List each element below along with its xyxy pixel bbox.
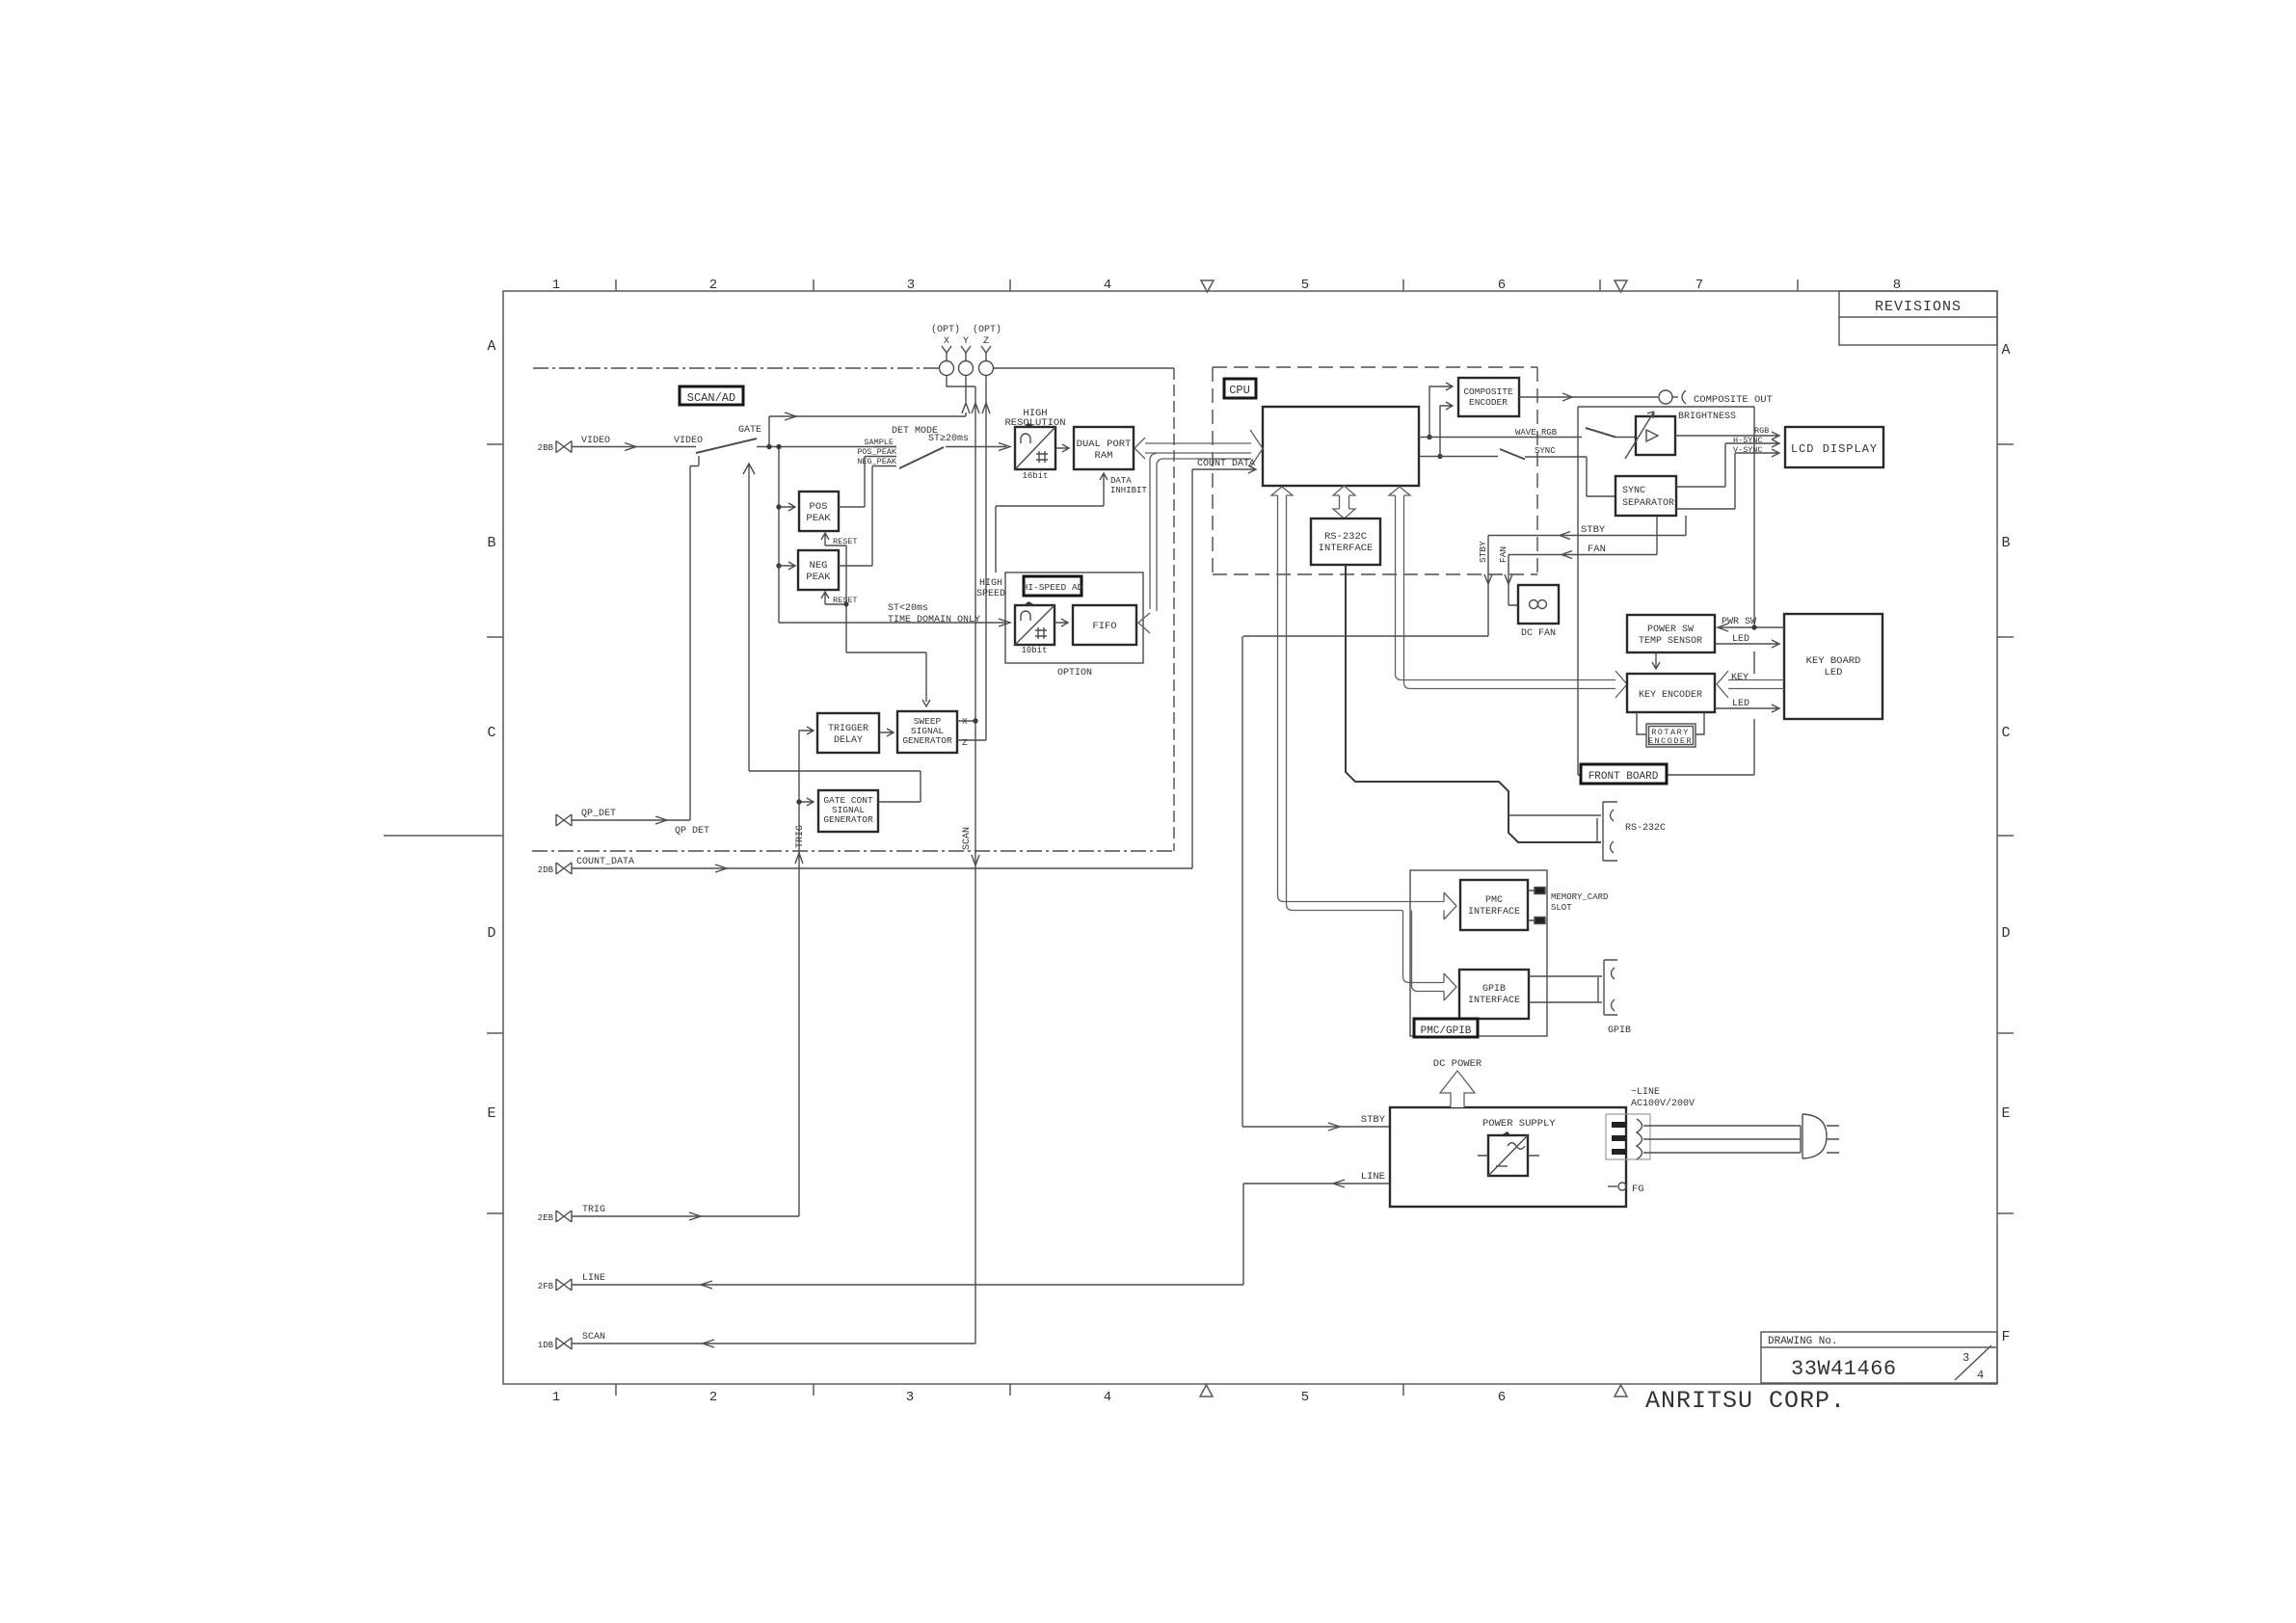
svg-text:TRIG: TRIG xyxy=(795,825,806,848)
svg-text:DRAWING No.: DRAWING No. xyxy=(1768,1336,1838,1347)
svg-text:PEAK: PEAK xyxy=(806,572,831,583)
svg-text:KEY ENCODER: KEY ENCODER xyxy=(1639,690,1702,701)
svg-text:F: F xyxy=(2001,1329,2010,1345)
svg-text:LINE: LINE xyxy=(1361,1171,1385,1183)
svg-text:OPTION: OPTION xyxy=(1057,668,1092,678)
svg-text:INTERFACE: INTERFACE xyxy=(1319,543,1374,554)
svg-text:GENERATOR: GENERATOR xyxy=(902,735,952,746)
svg-text:4: 4 xyxy=(1104,278,1111,293)
svg-text:COMPOSITE OUT: COMPOSITE OUT xyxy=(1694,394,1773,406)
svg-text:DELAY: DELAY xyxy=(834,735,863,746)
svg-text:SCAN: SCAN xyxy=(582,1332,605,1343)
svg-text:INTERFACE: INTERFACE xyxy=(1468,996,1520,1006)
svg-text:3: 3 xyxy=(1962,1351,1969,1365)
svg-text:2EB: 2EB xyxy=(538,1213,554,1223)
svg-text:STBY: STBY xyxy=(1478,541,1488,563)
svg-text:SEPARATOR: SEPARATOR xyxy=(1622,498,1674,509)
svg-text:4: 4 xyxy=(1104,1390,1111,1405)
svg-text:LED: LED xyxy=(1825,667,1843,678)
svg-text:MEMORY_CARD: MEMORY_CARD xyxy=(1551,892,1608,902)
svg-text:1: 1 xyxy=(552,1390,560,1405)
svg-text:SAMPLE: SAMPLE xyxy=(864,438,894,447)
svg-text:DC FAN: DC FAN xyxy=(1521,628,1556,639)
svg-text:STBY: STBY xyxy=(1581,524,1606,536)
svg-text:RGB: RGB xyxy=(1754,426,1769,436)
svg-text:SCAN/AD: SCAN/AD xyxy=(687,391,735,405)
svg-text:REVISIONS: REVISIONS xyxy=(1875,299,1962,315)
svg-text:(OPT): (OPT) xyxy=(973,324,1001,335)
svg-text:KEY: KEY xyxy=(1731,673,1749,683)
svg-text:4: 4 xyxy=(1977,1369,1984,1382)
svg-text:3: 3 xyxy=(906,1390,914,1405)
svg-text:LINE: LINE xyxy=(582,1273,605,1284)
svg-text:GPIB: GPIB xyxy=(1482,984,1506,995)
svg-text:FAN: FAN xyxy=(1498,546,1508,563)
svg-text:SYNC: SYNC xyxy=(1535,446,1556,456)
svg-text:ST<20ms: ST<20ms xyxy=(888,603,928,614)
svg-text:E: E xyxy=(487,1105,495,1122)
svg-text:VIDEO: VIDEO xyxy=(674,436,703,446)
svg-text:B: B xyxy=(487,535,495,551)
svg-text:SYNC: SYNC xyxy=(1622,486,1645,496)
svg-text:D: D xyxy=(2001,925,2010,942)
svg-text:RS-232C: RS-232C xyxy=(1324,531,1367,543)
svg-text:HI-SPEED AD: HI-SPEED AD xyxy=(1023,582,1083,593)
svg-text:C: C xyxy=(2001,725,2010,741)
svg-text:RESET: RESET xyxy=(833,537,858,546)
svg-text:DATA: DATA xyxy=(1110,476,1132,486)
svg-text:VIDEO: VIDEO xyxy=(581,436,610,446)
svg-text:LCD DISPLAY: LCD DISPLAY xyxy=(1791,442,1878,456)
svg-text:PMC/GPIB: PMC/GPIB xyxy=(1421,1025,1472,1037)
svg-text:2DB: 2DB xyxy=(538,865,554,875)
svg-text:GPIB: GPIB xyxy=(1608,1025,1631,1036)
svg-text:5: 5 xyxy=(1301,1390,1309,1405)
svg-text:C: C xyxy=(487,725,495,741)
svg-text:~LINE: ~LINE xyxy=(1631,1087,1660,1098)
svg-text:Z: Z xyxy=(983,336,989,347)
svg-text:6: 6 xyxy=(1498,278,1506,293)
svg-text:QP_DET: QP_DET xyxy=(581,809,616,819)
svg-text:FG: FG xyxy=(1632,1184,1644,1195)
svg-text:X: X xyxy=(962,716,968,727)
svg-text:6: 6 xyxy=(1498,1390,1506,1405)
svg-text:2BB: 2BB xyxy=(538,443,554,453)
svg-text:INTERFACE: INTERFACE xyxy=(1468,907,1520,918)
svg-text:ANRITSU CORP.: ANRITSU CORP. xyxy=(1645,1387,1846,1415)
svg-text:SPEED: SPEED xyxy=(976,589,1005,599)
svg-text:QP DET: QP DET xyxy=(675,826,709,837)
svg-text:KEY BOARD: KEY BOARD xyxy=(1806,655,1861,667)
svg-text:SLOT: SLOT xyxy=(1551,903,1572,913)
svg-text:ENCODER: ENCODER xyxy=(1648,736,1693,746)
svg-text:B: B xyxy=(2001,535,2010,551)
svg-text:NEG: NEG xyxy=(810,560,828,572)
svg-text:HIGH: HIGH xyxy=(979,578,1002,589)
svg-text:1: 1 xyxy=(552,278,560,293)
svg-text:SCAN: SCAN xyxy=(962,827,973,850)
svg-text:V-SYNC: V-SYNC xyxy=(1733,445,1763,455)
svg-text:POWER SW: POWER SW xyxy=(1647,625,1694,635)
svg-text:Y: Y xyxy=(963,336,969,347)
svg-text:TRIGGER: TRIGGER xyxy=(828,724,868,734)
svg-text:TEMP SENSOR: TEMP SENSOR xyxy=(1639,636,1702,647)
svg-text:RAM: RAM xyxy=(1095,450,1113,462)
svg-text:2: 2 xyxy=(709,1390,717,1405)
svg-text:CPU: CPU xyxy=(1229,384,1250,397)
svg-text:E: E xyxy=(2001,1105,2010,1122)
svg-text:PMC: PMC xyxy=(1485,895,1503,906)
svg-text:2FB: 2FB xyxy=(538,1282,554,1291)
svg-text:PEAK: PEAK xyxy=(806,513,831,524)
svg-text:X: X xyxy=(944,336,949,347)
svg-text:1DB: 1DB xyxy=(538,1341,554,1350)
svg-text:D: D xyxy=(487,925,495,942)
svg-text:POS: POS xyxy=(810,501,828,513)
svg-text:FRONT BOARD: FRONT BOARD xyxy=(1589,771,1659,783)
svg-text:COMPOSITE: COMPOSITE xyxy=(1463,386,1513,397)
svg-text:33W41466: 33W41466 xyxy=(1791,1357,1897,1381)
svg-text:10bit: 10bit xyxy=(1021,646,1047,655)
svg-text:ENCODER: ENCODER xyxy=(1469,397,1508,408)
svg-text:FIFO: FIFO xyxy=(1092,621,1116,632)
svg-text:INHIBIT: INHIBIT xyxy=(1110,486,1147,495)
svg-text:STBY: STBY xyxy=(1361,1114,1386,1126)
svg-text:7: 7 xyxy=(1695,278,1703,293)
svg-text:(OPT): (OPT) xyxy=(931,324,960,335)
svg-text:BRIGHTNESS: BRIGHTNESS xyxy=(1678,412,1736,422)
svg-text:COUNT DATA: COUNT DATA xyxy=(1197,459,1255,469)
svg-text:TIME DOMAIN ONLY: TIME DOMAIN ONLY xyxy=(888,615,980,625)
svg-text:GATE: GATE xyxy=(738,425,761,436)
svg-text:DUAL PORT: DUAL PORT xyxy=(1077,439,1132,450)
svg-text:PWR SW: PWR SW xyxy=(1722,617,1756,627)
svg-text:RS-232C: RS-232C xyxy=(1625,823,1666,834)
svg-text:Z: Z xyxy=(962,737,968,748)
svg-text:TRIG: TRIG xyxy=(582,1205,605,1215)
svg-text:FAN: FAN xyxy=(1588,544,1606,555)
svg-text:POS_PEAK: POS_PEAK xyxy=(857,447,897,457)
svg-text:NEG_PEAK: NEG_PEAK xyxy=(857,457,897,466)
svg-text:POWER SUPPLY: POWER SUPPLY xyxy=(1482,1118,1556,1130)
svg-text:WAVE_RGB: WAVE_RGB xyxy=(1515,428,1558,438)
svg-text:A: A xyxy=(487,338,495,355)
svg-text:H-SYNC: H-SYNC xyxy=(1733,436,1763,445)
svg-text:A: A xyxy=(2001,342,2010,359)
svg-text:DC POWER: DC POWER xyxy=(1433,1058,1482,1070)
svg-text:ST≥20ms: ST≥20ms xyxy=(928,434,969,444)
svg-text:GENERATOR: GENERATOR xyxy=(823,814,873,825)
svg-text:COUNT_DATA: COUNT_DATA xyxy=(576,857,634,867)
svg-text:3: 3 xyxy=(907,278,915,293)
svg-text:5: 5 xyxy=(1301,278,1309,293)
svg-text:AC100V/200V: AC100V/200V xyxy=(1631,1098,1695,1109)
svg-text:2: 2 xyxy=(709,278,717,293)
svg-text:16bit: 16bit xyxy=(1022,471,1048,481)
